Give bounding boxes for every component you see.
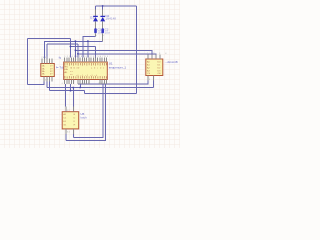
pin C2 bottom lead (102, 33, 104, 41)
pin U4 bottom 3 (49, 77, 51, 82)
svg-text:fq: fq (59, 55, 62, 59)
junction dot Y1 x75.5 (75, 50, 77, 52)
pin U4 top 1 (41, 59, 43, 64)
wire B drop at x88 (87, 41, 89, 57)
junction dot B x88 (87, 40, 89, 42)
wire E left drop to U4 (46, 44, 48, 58)
svg-text:EA: EA (65, 68, 69, 71)
wire A horizontal (28, 37, 71, 39)
wire E right drop to U1 (77, 44, 79, 57)
pin U4 top 5 (51, 59, 53, 64)
pin U4 top 3 (46, 59, 48, 64)
wire L1 horizontal long (47, 87, 154, 89)
capacitor C1 (94, 28, 97, 33)
svg-text:2 4 6 8: 2 4 6 8 (41, 57, 48, 59)
svg-text:10u: 10u (105, 30, 110, 34)
pin U3 top 2 (151, 55, 153, 59)
wire Q horizontal (50, 90, 85, 92)
pin U5 bottom 2 (72, 129, 74, 134)
pin U3 top 4 (159, 55, 161, 59)
pin U3 top 3 (155, 55, 157, 59)
wire F drop to U1 (95, 47, 97, 58)
wire C1 net to U1 XTAL (83, 37, 96, 58)
svg-text:a b c d e: a b c d e (91, 68, 105, 70)
svg-text:1234567890123456789: 1234567890123456789 (64, 56, 109, 58)
wire B drop at x75.5 (75, 41, 77, 57)
diode D2 (100, 16, 105, 21)
pin U4 top 2 (43, 59, 45, 64)
svg-text:D1: D1 (90, 16, 94, 20)
wire E horizontal (47, 43, 78, 45)
junction dot Y2 x78 (77, 53, 79, 55)
wire C2 net horizontal B (44, 41, 102, 58)
capacitor C2 (101, 28, 104, 33)
wire U5 bottom pin2 to it (65, 134, 67, 141)
svg-text:r0 r1 r2 r3 r4: r0 r1 r2 r3 r4 (76, 74, 98, 77)
svg-text:→dcvcnt8: →dcvcnt8 (164, 60, 178, 64)
IC U1 center MCU (64, 62, 108, 80)
pin U3 top 1 (147, 55, 149, 59)
svg-text:4321: 4321 (81, 83, 90, 85)
junction dot L1 x80.3 (79, 87, 81, 89)
wire F horizontal (71, 46, 96, 48)
wire Y2 horizontal to U3 (78, 53, 156, 56)
IC U4 left (41, 64, 55, 77)
wire U1 to U5 direct (65, 84, 67, 106)
pin D1 cathode lead (95, 10, 97, 17)
pin U3 bottom 2 (153, 76, 155, 81)
wire N jog up (83, 91, 85, 94)
wire U1 pin drop to Q (70, 84, 72, 91)
junction dot F x70.5 (70, 46, 72, 48)
pin D2 anode lead (102, 21, 104, 28)
svg-text:sequencer_1: sequencer_1 (109, 66, 127, 70)
wire Q drop from U4 pin (49, 81, 51, 90)
IC U3 right (146, 59, 163, 76)
svg-text:09876: 09876 (62, 83, 73, 85)
wire U1 pin drop to L1 (79, 84, 81, 87)
pin D2 cathode lead (102, 10, 104, 17)
wire A left loop down (27, 38, 29, 84)
wire U5 bottom pin to it (72, 134, 74, 138)
wire A loop bottom (28, 81, 44, 84)
wire A drop to U1 (70, 38, 72, 57)
pin U4 bottom 4 (51, 77, 53, 82)
pins U1 bottom row (65, 80, 107, 85)
pin U3 bottom 1 (147, 76, 149, 81)
pins U1 top row (65, 58, 107, 62)
wire L1 up to U3 pin (153, 81, 155, 88)
svg-text:latch: latch (81, 116, 88, 120)
pin D1 anode lead (95, 21, 97, 28)
wire M from U1 pin (77, 82, 79, 85)
junction dot B x75.5 (75, 40, 77, 42)
pin U5 bottom 1 (65, 129, 67, 134)
wire top net VCC horizontal (96, 5, 137, 7)
pin U5 top 2 (72, 107, 74, 112)
IC U5 bottom (62, 112, 78, 129)
junction dot Q/U1 (70, 90, 72, 92)
svg-text:1N4148: 1N4148 (105, 17, 116, 21)
wire D1 top lead (95, 6, 97, 10)
wire U1 right pin1 down-left to U5 (73, 84, 103, 137)
svg-text:OE: OE (158, 73, 162, 75)
pin U4 top 4 (49, 59, 51, 64)
wire U1 right pin2 down-left to U5 (66, 84, 106, 140)
wire N horizontal to MCU pin (84, 92, 136, 94)
pin U5 top 1 (65, 107, 67, 112)
svg-text:t0 t1 it0: t0 t1 it0 (70, 67, 80, 70)
background grid (0, 0, 180, 148)
wire VCC right drop to node (136, 6, 138, 93)
wire M horizontal (78, 81, 148, 84)
wire D2 top lead (102, 6, 104, 10)
svg-text:CS: CS (147, 73, 151, 75)
wire Y1 horizontal to U3 (76, 50, 153, 54)
junction dot L1 x73.3 (72, 87, 74, 89)
diode D1 (93, 16, 98, 21)
wire L1 from U4 pin (46, 81, 48, 87)
pin C1 bottom lead (95, 33, 97, 36)
wire L1 drop to U5 (72, 88, 74, 107)
junction dot VCC/D2 (102, 5, 104, 7)
svg-text:876: 876 (98, 83, 105, 85)
svg-text:1 2 3 4: 1 2 3 4 (147, 53, 169, 55)
pin U4 bottom 1 (43, 77, 45, 82)
pin U4 bottom 2 (46, 77, 48, 82)
